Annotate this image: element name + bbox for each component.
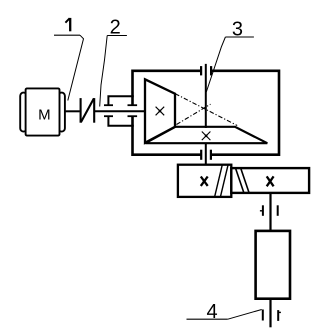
wire: output shaft upper (269, 193, 271, 233)
bearing (top of vertical shaft) (201, 66, 211, 75)
wire: output shaft lower (269, 299, 271, 328)
svg-text:M: M (38, 107, 51, 124)
gear G2 (helical, on output shaft) (231, 168, 309, 193)
x mark: bevel pinion (156, 107, 165, 116)
label 1 (54, 18, 84, 101)
bearing (above drum) (260, 205, 278, 216)
gear G1 (helical, on vertical shaft) (178, 165, 231, 197)
wire: motor output shaft (65, 110, 80, 112)
wire: vertical shaft (upper) (205, 64, 207, 128)
gearbox housing (133, 71, 280, 155)
wire: shaft from coupling into gearbox (94, 110, 145, 112)
label 2 (100, 16, 127, 106)
bearing (bottom wall of gearbox) (201, 150, 211, 160)
bevel pinion (on input shaft) (145, 79, 175, 143)
input-shaft wall gland (upper bracket) (104, 96, 137, 105)
bearing (below drum) (263, 310, 281, 321)
label 4 (187, 301, 262, 323)
label 3 (206, 18, 254, 92)
x mark: bevel wheel (202, 132, 211, 141)
motor M (20, 88, 65, 135)
x mark: gear G2 (267, 176, 274, 186)
wire: vertical shaft (lower) (205, 143, 207, 166)
pitch line 2 (dash-dot) (177, 104, 211, 124)
coupling (elastic) (81, 98, 95, 123)
pitch line (dash-dot) (175, 94, 237, 126)
bevel wheel (on vertical shaft) (145, 127, 267, 143)
x mark: gear G1 (201, 177, 208, 186)
input-shaft wall gland (lower bracket) (104, 116, 137, 126)
drum (256, 231, 290, 299)
